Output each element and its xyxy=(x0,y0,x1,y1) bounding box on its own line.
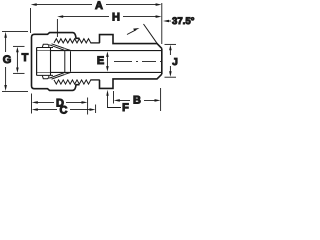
bore line bottom xyxy=(51,71,162,73)
extension line left of nut (for A) xyxy=(30,8,32,33)
T top extension line xyxy=(13,45,25,47)
nut counterbore face xyxy=(36,48,38,76)
body bore step xyxy=(64,51,66,73)
extension line thread runout (for C) xyxy=(95,105,97,114)
body hex and male end outline bottom xyxy=(100,74,162,88)
tube outer wall lines xyxy=(37,48,53,76)
dimension T xyxy=(16,47,19,73)
extension line hex right face (for B) xyxy=(113,91,115,104)
centerline dash-dot xyxy=(114,60,162,62)
svg-text:F: F xyxy=(122,102,129,114)
extension line end of thread (for D) xyxy=(87,98,89,115)
dimension B xyxy=(114,99,161,102)
J top extension line xyxy=(165,43,177,45)
dimension H xyxy=(57,15,161,18)
dimension G xyxy=(4,32,7,91)
body right face xyxy=(161,48,163,74)
T bottom extension line xyxy=(13,72,25,74)
body thread bottom (zigzag) xyxy=(54,80,91,84)
body hex and male end outline top xyxy=(100,35,162,49)
angle leader arrow pointing at chamfer line xyxy=(127,28,140,35)
nut outline xyxy=(32,33,80,91)
body seat face xyxy=(70,51,72,72)
thread runout to hex bottom xyxy=(90,79,99,81)
dimension A xyxy=(31,3,162,6)
dimension E xyxy=(106,51,109,71)
left extension line below nut (for C,D) xyxy=(31,94,33,114)
back ferrule bottom xyxy=(42,76,49,79)
front ferrule top xyxy=(50,44,71,51)
J bottom extension line xyxy=(165,76,177,78)
svg-text:G: G xyxy=(3,54,12,66)
G top extension line xyxy=(2,30,28,32)
dimension D xyxy=(32,101,88,104)
svg-text:A: A xyxy=(95,0,103,12)
back ferrule top xyxy=(42,44,49,47)
body thread top (zigzag) xyxy=(54,39,91,43)
svg-text:37.5°: 37.5° xyxy=(172,16,195,27)
svg-text:T: T xyxy=(22,52,29,64)
thread runout to hex top xyxy=(90,42,99,44)
tube end face xyxy=(50,48,52,76)
dimension C xyxy=(32,108,96,111)
G bottom extension line xyxy=(2,90,28,92)
svg-text:E: E xyxy=(97,55,104,67)
bore line top xyxy=(51,50,162,52)
chamfer extension line 37.5 degrees xyxy=(144,24,158,44)
svg-text:B: B xyxy=(133,95,141,107)
extension line right end (for A,H) xyxy=(161,3,163,44)
angle label 37.5 deg with leader arrow xyxy=(163,20,171,23)
svg-text:C: C xyxy=(60,104,68,116)
F leader arrow xyxy=(106,90,121,108)
front ferrule bottom xyxy=(50,73,71,80)
svg-text:H: H xyxy=(112,12,120,24)
svg-text:J: J xyxy=(172,57,178,68)
dimension J xyxy=(169,45,172,77)
extension line right end bottom (for B) xyxy=(160,88,162,111)
extension line at step (for H) xyxy=(56,19,58,37)
